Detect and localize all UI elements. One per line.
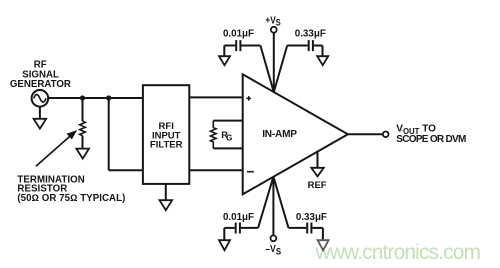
ground (RFI filter) xyxy=(160,200,173,210)
plus sign at amp + input xyxy=(246,96,251,101)
wire termination resistor vertical xyxy=(82,98,84,121)
capacitor C1 0.01uF top wires xyxy=(224,45,235,47)
wire bottom right cap diagonal xyxy=(273,177,288,228)
ground (C1) xyxy=(219,56,230,65)
op-amp IN-AMP triangle xyxy=(243,74,348,194)
wire top left cap diagonal to supply point xyxy=(260,46,273,93)
ground (C3) xyxy=(219,240,230,250)
minus sign at amp - input xyxy=(247,171,254,173)
arrow annotation to termination resistor xyxy=(36,134,72,166)
terminal Vout circle xyxy=(383,132,389,138)
ground (C4) xyxy=(318,240,329,250)
svg-text:GENERATOR: GENERATOR xyxy=(10,79,71,90)
wire generator to ground stub xyxy=(39,107,41,119)
capacitor C1 plates xyxy=(235,40,237,51)
RF signal generator source circle xyxy=(32,90,49,107)
ground (termination resistor) xyxy=(76,149,89,159)
ground (C2) xyxy=(317,56,328,65)
capacitor C3 plates xyxy=(235,223,237,234)
svg-text:0.01μF: 0.01μF xyxy=(223,28,254,39)
wire C4 ground stub xyxy=(322,228,324,240)
capacitor C4 0.33uF bottom wires xyxy=(289,227,307,229)
wire top right cap diagonal to supply point xyxy=(274,46,287,93)
wire RFI filter ground stub xyxy=(165,184,167,200)
svg-text:IN-AMP: IN-AMP xyxy=(262,129,297,140)
label RF SIGNAL GENERATOR xyxy=(10,59,71,89)
svg-text:0.33μF: 0.33μF xyxy=(295,28,326,39)
resistor RG zigzag xyxy=(211,121,217,149)
svg-text:0.33μF: 0.33μF xyxy=(296,212,327,223)
junction node B dot xyxy=(106,95,111,100)
wire RG top lead xyxy=(213,120,242,122)
svg-text:0.01μF: 0.01μF xyxy=(223,212,254,223)
label RFI INPUT FILTER xyxy=(150,121,183,150)
wire main horizontal generator to RFI filter xyxy=(48,97,143,99)
sine wave inside generator xyxy=(34,95,46,103)
capacitor C2 0.33uF top wires xyxy=(287,45,308,47)
wire -Vs vertical xyxy=(272,177,274,236)
wire resistor to ground xyxy=(82,136,84,149)
wire filter to amp - input xyxy=(189,169,242,171)
svg-text:REF: REF xyxy=(308,180,327,191)
wire C3 ground stub xyxy=(223,228,225,240)
capacitor C2 plates xyxy=(308,40,310,51)
svg-text:www.cntronics.com: www.cntronics.com xyxy=(315,241,482,264)
wire +Vs vertical xyxy=(273,33,275,92)
capacitor C3 0.01uF bottom wires xyxy=(224,227,235,229)
wire REF stub xyxy=(317,152,319,168)
svg-text:SCOPE OR DVM: SCOPE OR DVM xyxy=(396,134,466,145)
ground (generator) xyxy=(34,119,47,129)
label TERMINATION RESISTOR xyxy=(17,174,125,204)
svg-text:FILTER: FILTER xyxy=(150,139,183,150)
terminal -Vs circle xyxy=(271,235,277,241)
terminal +Vs circle xyxy=(271,27,277,33)
wire output from apex xyxy=(348,133,383,135)
ground (REF) xyxy=(311,168,323,177)
capacitor C4 plates xyxy=(306,223,308,234)
wire C1 ground stub xyxy=(223,46,225,57)
wire lower to RFI filter xyxy=(109,169,143,171)
junction node A dot xyxy=(80,95,85,100)
svg-text:(50Ω OR 75Ω TYPICAL): (50Ω OR 75Ω TYPICAL) xyxy=(17,193,125,204)
wire bottom left cap diagonal xyxy=(258,177,273,228)
resistor termination zigzag xyxy=(80,121,86,135)
wire filter to amp + input xyxy=(189,96,242,98)
wire junction2 vertical down xyxy=(108,98,110,170)
wire RG bottom lead xyxy=(213,147,242,149)
wire C2 ground stub xyxy=(322,46,324,57)
RFI input filter box xyxy=(143,85,189,184)
